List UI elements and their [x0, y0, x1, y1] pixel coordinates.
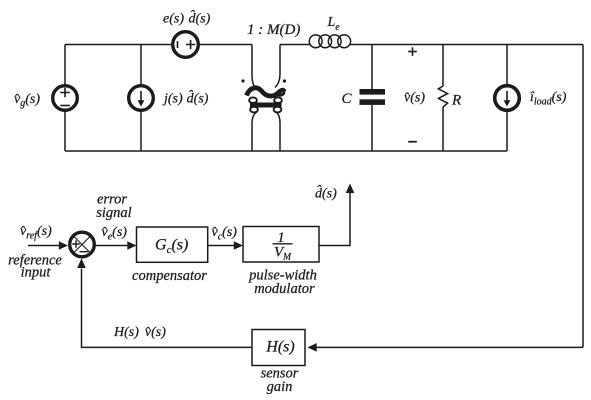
svg-text:v̂g(s): v̂g(s)	[14, 92, 40, 109]
label reference input	[8, 253, 62, 281]
voltage source e(s)d(s)	[173, 32, 199, 58]
wire H block to summing junction with arrow	[77, 258, 252, 347]
transformer T1 secondary wire top	[275, 45, 280, 88]
wire resistor column lower	[442, 107, 444, 151]
voltage source Vg	[53, 86, 78, 111]
svg-text:v̂e(s): v̂e(s)	[102, 225, 128, 243]
block 1/VM pulse-width modulator	[243, 227, 319, 263]
current source i_load	[495, 86, 520, 111]
svg-text:input: input	[21, 265, 52, 281]
summing junction	[70, 232, 95, 257]
svg-text:1 : M(D): 1 : M(D)	[247, 22, 300, 38]
label + output	[408, 47, 417, 56]
wire j-source column lower	[140, 112, 142, 152]
svg-text:H(s): H(s)	[265, 339, 294, 356]
label vg(s)	[14, 92, 40, 109]
svg-text:v̂ref(s): v̂ref(s)	[20, 224, 52, 242]
svg-text:R: R	[451, 93, 461, 109]
label sensor gain	[261, 366, 299, 395]
transformer T1 primary dot	[241, 79, 244, 82]
transformer T1 winding wave end swirl	[277, 92, 284, 96]
svg-text:v̂(s): v̂(s)	[404, 91, 425, 106]
transformer T1 lower left loop	[250, 107, 258, 113]
label plus summing	[72, 240, 80, 247]
transformer T1 secondary wire bottom	[276, 112, 281, 152]
svg-text:Le: Le	[327, 15, 341, 33]
label - output	[408, 141, 417, 143]
transformer T1 primary wire bottom	[252, 112, 258, 152]
transformer T1 winding wave	[247, 88, 285, 96]
transformer T1 lower right loop	[274, 107, 282, 113]
wire right edge feedback drop	[582, 45, 584, 348]
wire left edge lower	[64, 112, 66, 152]
current source j(s)d(s)	[129, 86, 154, 111]
svg-text:e(s)d̂(s): e(s)d̂(s)	[163, 10, 211, 27]
transformer T1 upper right loop	[274, 97, 282, 103]
svg-text:1: 1	[277, 230, 285, 246]
transformer T1 upper left loop	[249, 97, 257, 103]
wire top rail (e-source to transformer primary)	[200, 44, 252, 46]
label pulse-width modulator	[248, 267, 317, 297]
wire summing junction to compensator with arrow	[96, 241, 137, 250]
svg-text:signal: signal	[96, 205, 131, 221]
wire capacitor column upper	[371, 45, 373, 90]
svg-text:îload(s): îload(s)	[530, 90, 567, 108]
wire top rail (transformer secondary to inductor)	[280, 44, 310, 46]
wire capacitor column lower	[371, 105, 373, 151]
inductor Le loop 2	[319, 35, 332, 48]
wire top rail left (vg to e-source)	[65, 44, 171, 46]
fraction bar 1/VM	[273, 243, 293, 245]
svg-text:Gc(s): Gc(s)	[155, 237, 188, 257]
inductor Le loop 3	[328, 35, 341, 48]
transformer T1 core bar	[250, 103, 282, 108]
wire feedback bottom (right edge to H block) with arrow	[308, 343, 584, 352]
wire top rail (inductor to right edge)	[350, 44, 583, 46]
capacitor C plate bottom	[360, 99, 386, 105]
wire load-source column lower	[506, 112, 508, 152]
wire bottom rail	[65, 150, 507, 152]
resistor R	[438, 86, 447, 107]
capacitor C plate top	[360, 89, 386, 95]
wire load-source column upper	[506, 45, 508, 85]
label minus summing	[80, 251, 89, 253]
wire modulator output up to d(s) with arrow	[319, 184, 354, 246]
inductor Le loop 4	[338, 35, 351, 48]
svg-text:v̂c(s): v̂c(s)	[212, 225, 238, 243]
svg-text:H(s)v̂(s): H(s)v̂(s)	[113, 325, 166, 340]
wire resistor column upper	[442, 45, 444, 87]
wire reference input with arrow	[28, 241, 68, 250]
svg-text:C: C	[342, 91, 353, 107]
block Gc compensator	[137, 227, 208, 262]
wire j-source column upper	[140, 45, 142, 85]
svg-text:d̂(s): d̂(s)	[315, 185, 337, 202]
svg-text:gain: gain	[267, 379, 293, 395]
transformer T1 secondary dot	[283, 79, 286, 82]
svg-text:j(s)d̂(s): j(s)d̂(s)	[162, 90, 209, 107]
block H(s) sensor gain	[252, 330, 305, 366]
svg-text:modulator: modulator	[254, 281, 315, 297]
label error signal	[96, 191, 131, 221]
svg-text:compensator: compensator	[132, 268, 207, 284]
svg-text:VM: VM	[274, 245, 292, 263]
label 1 over VM	[274, 230, 292, 263]
wire compensator to modulator with arrow	[208, 241, 243, 250]
wire left edge upper	[64, 45, 66, 85]
inductor Le loop 1	[309, 35, 322, 48]
transformer T1 primary wire top	[252, 45, 258, 90]
